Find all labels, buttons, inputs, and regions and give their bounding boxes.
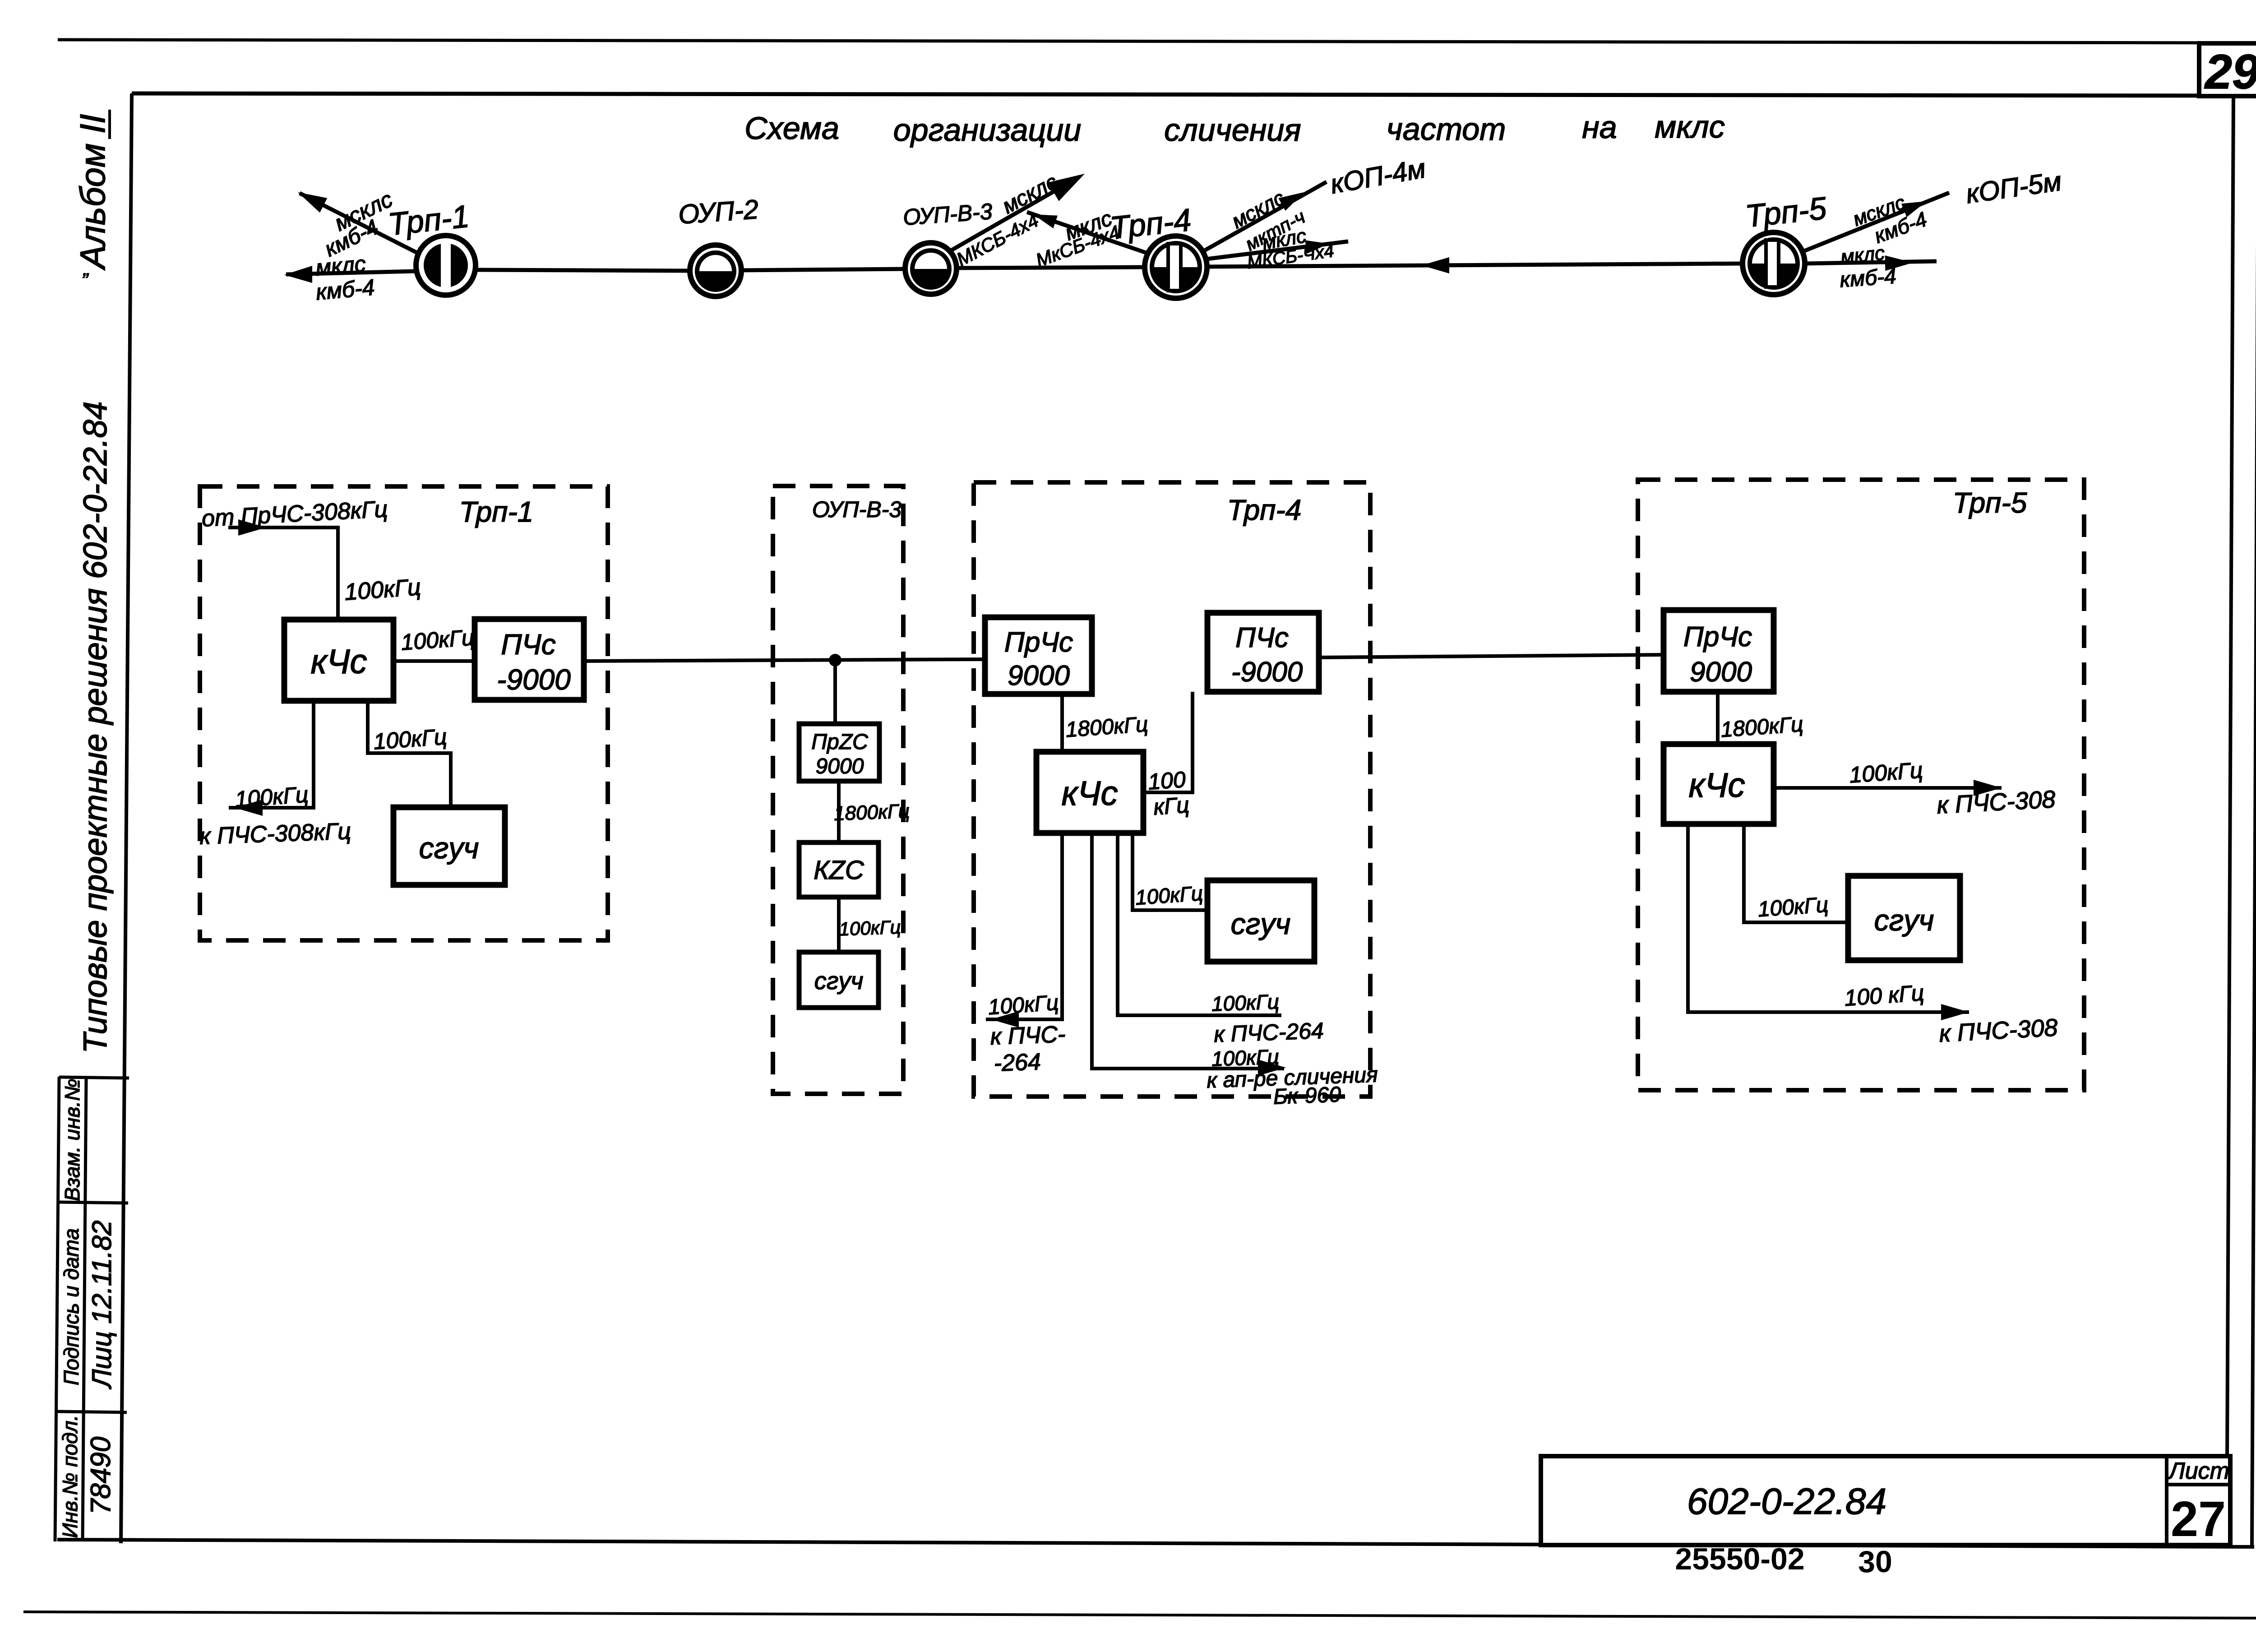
svg-text:к ПЧС-264: к ПЧС-264 <box>1213 1018 1324 1047</box>
svg-text:100кГц: 100кГц <box>400 625 475 655</box>
svg-text:к ПЧС-: к ПЧС- <box>990 1021 1066 1050</box>
title block divider <box>2165 1456 2168 1545</box>
svg-text:кЧс: кЧс <box>310 643 367 681</box>
branch line D Трп-4 shallow right <box>1207 241 1348 259</box>
station Трп-5 circle <box>1743 232 1805 295</box>
label ОУП-В-3 <box>902 199 994 230</box>
svg-text:ПЧс: ПЧс <box>1235 622 1289 653</box>
block ПЧС-9000 (Трп-4) <box>1207 613 1319 692</box>
label к ПЧС-308 (upper) <box>1936 786 2056 819</box>
station ОУП-2 circle <box>690 245 741 296</box>
frame bottom line <box>57 1540 2254 1547</box>
label 100кГц (w4) <box>1134 881 1203 909</box>
block КЧС (Трп-5) <box>1664 744 1774 824</box>
wire КЧС output w1 to ПЧС-264 <box>986 833 1062 1019</box>
label от ПрЧС-308кГц <box>201 496 388 532</box>
wire КЧС up to ПЧС-9000 (Трп-4) <box>1143 692 1193 792</box>
svg-text:100кГц: 100кГц <box>1134 881 1203 909</box>
svg-text:ОУП-2: ОУП-2 <box>677 194 759 230</box>
svg-text:100кГц: 100кГц <box>1849 757 1923 787</box>
stamp label: Подпись и дата <box>60 1228 83 1385</box>
svg-text:частот: частот <box>1387 111 1506 147</box>
svg-text:9000: 9000 <box>1690 657 1752 688</box>
label 1800кГц (Трп-5) <box>1720 713 1804 742</box>
label МКЛС (line B) <box>1062 206 1115 245</box>
svg-text:сгуч: сгуч <box>1874 903 1934 937</box>
svg-text:9000: 9000 <box>816 754 864 778</box>
label 100кГц (right out) <box>1849 757 1923 787</box>
block КЧС (Трп-4) <box>1036 752 1143 833</box>
station Трп-1 circle <box>416 236 476 295</box>
label Трп-4 (line) <box>1108 202 1193 245</box>
wire input to КЧС (Трп-1) <box>228 528 338 620</box>
wire junction to Пр2С <box>833 660 837 724</box>
svg-text:ОУП-В-3: ОУП-В-3 <box>812 497 901 522</box>
svg-text:100кГц: 100кГц <box>839 916 901 940</box>
svg-text:сличения: сличения <box>1164 112 1301 148</box>
label 100кГц (to СГУЧ) <box>373 724 448 754</box>
wire КЧС output w3 to ПЧС-264 <box>1118 833 1281 1015</box>
wire КЧС output w4 to СГУЧ (Трп-4) <box>1133 833 1207 910</box>
label Трп-1 (line) <box>386 199 471 242</box>
svg-text:сгуч: сгуч <box>1231 907 1291 940</box>
label МСКЛС / КМБ-4 (left diag) <box>330 186 396 236</box>
label МСКЛС (line E) <box>1850 191 1908 231</box>
title: Схема организации сличения частот на МКЛС <box>744 109 1725 148</box>
svg-text:на: на <box>1582 110 1617 145</box>
bottom-left stamp column: verticals <box>55 1077 59 1541</box>
block ПрЧС 9000 (Трп-5) <box>1664 610 1774 692</box>
label 100кГц (input) <box>344 574 422 606</box>
stamp signature: Лшц 12.11.82 <box>87 1220 117 1389</box>
block К2С <box>799 842 878 897</box>
label МКЛС (right horiz) <box>1840 242 1886 268</box>
stamp label: Взам. инв.№ <box>60 1078 84 1201</box>
svg-text:100кГц: 100кГц <box>987 991 1059 1020</box>
wire КЧС to СГУЧ (Трп-1) <box>368 701 451 807</box>
svg-text:602-0-22.84: 602-0-22.84 <box>1687 1481 1886 1522</box>
label 100кГц (down-left) <box>234 782 309 812</box>
block СГУЧ (Трп-5) <box>1848 876 1960 960</box>
block ПрЧС 9000 (Трп-4) <box>985 617 1092 694</box>
svg-text:25550-02: 25550-02 <box>1675 1542 1804 1576</box>
svg-text:Лист: Лист <box>2168 1458 2229 1484</box>
branch line C Трп-4 up-right <box>1204 182 1327 251</box>
Лист cell separator <box>2167 1483 2230 1486</box>
svg-text:-9000: -9000 <box>497 663 571 696</box>
label ОУП-2 <box>677 194 759 230</box>
label 100кГц (w2) <box>1211 1045 1280 1070</box>
block ПЧС-9000 (Трп-1) <box>475 619 584 700</box>
label Трп-5 (line) <box>1743 190 1828 234</box>
block СГУЧ (Трп-1) <box>393 807 505 885</box>
label к ПЧС-308кГц <box>199 818 351 850</box>
wire ПЧС-9000 to junction (long trunk) <box>584 659 985 661</box>
svg-text:сгуч: сгуч <box>814 967 864 995</box>
svg-text:Типовые проектные решения: Типовые проектные решения 602-0-22.84 <box>77 401 114 1053</box>
svg-text:9000: 9000 <box>1008 660 1070 691</box>
left margin label: Типовые проектные решения 602-0-22.84 <box>77 401 114 1053</box>
branch line E Трп-5 up-right <box>1804 193 1949 251</box>
svg-text:100кГц: 100кГц <box>373 724 448 754</box>
wire КЧС down-left output <box>229 701 314 808</box>
label МКЛС (line D) <box>1261 225 1308 254</box>
label МКСБ-4х4 (line D) <box>1246 241 1335 273</box>
label кОП-5м <box>1964 166 2063 209</box>
svg-text:„: „ <box>83 258 90 280</box>
title block rectangle <box>1541 1456 2230 1545</box>
label МКСБ-4х4 (line B) <box>1033 221 1123 271</box>
wire ОУП-В-3 to Трп-4 <box>956 267 1146 268</box>
dashed station box ОУП-В-3 <box>773 486 903 1094</box>
svg-text:29: 29 <box>2204 44 2256 99</box>
svg-text:100кГц: 100кГц <box>234 782 309 812</box>
wire ПЧС-9000 (Трп-4) to Трп-5 trunk <box>1319 655 1664 657</box>
svg-text:кГц: кГц <box>1152 792 1190 819</box>
underline below II of Альбом <box>108 110 111 139</box>
svg-text:КZС: КZС <box>814 856 864 885</box>
wire КЧС bottom-left output to ПЧС-308 <box>1688 824 1969 1012</box>
wire КЧС to ПЧС-9000 <box>393 659 475 663</box>
wire ПрЧС to КЧС (Трп-5) <box>1716 692 1720 744</box>
branch line from Трп-1 up-left with arrow <box>300 193 419 254</box>
svg-text:100кГц: 100кГц <box>344 574 422 606</box>
svg-text:ПЧс: ПЧс <box>501 628 555 661</box>
dashed station box Трп-1 <box>200 486 608 940</box>
label к ПЧС-264 (w3) <box>1213 1018 1324 1047</box>
svg-text:Трп-4: Трп-4 <box>1227 494 1302 526</box>
svg-text:27: 27 <box>2171 1491 2226 1547</box>
svg-text:100кГц: 100кГц <box>1211 990 1280 1015</box>
label 100кГц (ОУП-В-3) <box>839 916 901 940</box>
label 100кГц (to СГУЧ Трп-5) <box>1757 893 1829 922</box>
label к ПЧС-308 (lower) <box>1938 1014 2058 1047</box>
label к ап-ре сличения <box>1207 1063 1378 1092</box>
svg-text:78490: 78490 <box>85 1437 116 1514</box>
svg-text:мклс: мклс <box>1655 109 1725 144</box>
svg-text:кЧс: кЧс <box>1688 766 1745 805</box>
svg-text:Схема: Схема <box>744 111 839 146</box>
wire КЧС right output to ПЧС-308 <box>1774 786 2002 790</box>
svg-text:-264: -264 <box>994 1049 1041 1077</box>
block Пр2С 9000 <box>799 724 879 781</box>
svg-text:Подпись и дата: Подпись и дата <box>60 1228 83 1385</box>
svg-text:сгуч: сгуч <box>419 831 479 865</box>
svg-text:ПрZС: ПрZС <box>811 730 868 754</box>
label КМБ-4 (right horiz) <box>1839 264 1897 292</box>
svg-text:ПрЧс: ПрЧс <box>1004 627 1073 658</box>
label кОП-4м <box>1328 153 1428 199</box>
svg-text:1800кГц: 1800кГц <box>833 800 910 825</box>
label 1800кГц (ОУП-В-3) <box>833 800 910 825</box>
station Трп-4 circle <box>1145 236 1207 298</box>
label МКТП-4 (line C) <box>1242 206 1308 255</box>
svg-text:-9000: -9000 <box>1231 657 1303 688</box>
svg-text:30: 30 <box>1858 1545 1892 1579</box>
stamp cell separators <box>59 1077 129 1078</box>
branch line A ОУП-В-3 up-right with big arrow <box>950 177 1079 251</box>
svg-text:Бк-960: Бк-960 <box>1273 1083 1341 1109</box>
svg-text:к ПЧС-308кГц: к ПЧС-308кГц <box>199 818 351 850</box>
label 100 кГц (Трп-4 riser) <box>1147 767 1186 795</box>
wire ОУП-2 to ОУП-В-3 <box>740 269 906 270</box>
frame right inner vertical <box>2227 96 2233 1458</box>
label 1800кГц (Трп-4) <box>1065 713 1149 742</box>
station ОУП-В-3 circle <box>905 243 957 294</box>
top outer sheet line <box>58 40 2256 43</box>
wire Трп-1 to ОУП-2 <box>476 270 691 271</box>
frame left vertical <box>121 93 132 1543</box>
block СГУЧ (Трп-4) <box>1207 880 1314 962</box>
svg-text:100кГц: 100кГц <box>1757 893 1829 922</box>
svg-text:Взам. инв.№: Взам. инв.№ <box>60 1078 84 1201</box>
label МСКЛС (line A) <box>999 170 1062 218</box>
label 100кГц (КЧС-ПЧС) <box>400 625 475 655</box>
sheet right outer vertical <box>2252 42 2256 1546</box>
svg-text:кмб-4: кмб-4 <box>1839 264 1897 292</box>
branch line B to Трп-4 with small arrow <box>1027 212 1146 253</box>
svg-text:Альбом II: Альбом II <box>73 114 112 271</box>
label к ПЧС- / -264 <box>990 1021 1066 1050</box>
wire ПрЧС to КЧС (Трп-4) <box>1060 694 1064 752</box>
sheet number box 29 <box>2199 43 2256 99</box>
wire КЧС output w2 to comparison apparatus <box>1092 833 1284 1069</box>
svg-text:Трп-1: Трп-1 <box>459 495 534 528</box>
svg-text:кЧс: кЧс <box>1061 774 1118 813</box>
label МСКЛС (line C) <box>1228 186 1289 233</box>
svg-text:100: 100 <box>1147 767 1186 795</box>
svg-text:организации: организации <box>893 112 1082 148</box>
dashed station box Трп-4 <box>974 482 1370 1097</box>
svg-text:мклс: мклс <box>1840 242 1886 268</box>
label Бк-960 <box>1273 1083 1341 1109</box>
stamp label: Инв.№ подл. <box>58 1415 82 1538</box>
main trunk line segment Трп-1 left arrow <box>286 271 416 274</box>
svg-text:ПрЧс: ПрЧс <box>1683 621 1752 652</box>
label МКЛС / КМБ-4 (left horiz) <box>314 251 367 280</box>
wire К2С to СГУЧ (ОУП-В-3) <box>837 897 841 952</box>
stamp number: 78490 <box>85 1437 116 1514</box>
svg-text:кмб-4: кмб-4 <box>315 274 376 305</box>
dashed station box Трп-5 <box>1638 480 2084 1090</box>
frame top line <box>132 93 2233 96</box>
label 100 кГц (bottom out) <box>1844 980 1925 1011</box>
sheet bottom outer line <box>23 1612 2256 1618</box>
junction node on trunk <box>829 654 841 666</box>
label МКСБ-4х4 (line A) <box>953 209 1042 270</box>
label 100кГц (w3) <box>1211 990 1280 1015</box>
svg-text:Лшц 12.11.82: Лшц 12.11.82 <box>87 1220 117 1389</box>
left margin label: Альбом II <box>73 114 112 271</box>
block СГУЧ (ОУП-В-3) <box>799 952 878 1008</box>
svg-text:Инв.№ подл.: Инв.№ подл. <box>58 1415 82 1538</box>
wire Трп-5 to right end arrow <box>1805 261 1937 264</box>
label КМБ-4 (line E) <box>1871 207 1930 248</box>
block КЧС (Трп-1) <box>284 620 393 701</box>
svg-text:Трп-5: Трп-5 <box>1953 486 2027 519</box>
wire Трп-4 to Трп-5 with mid arrow <box>1207 264 1743 267</box>
wire КЧС to СГУЧ (Трп-5) <box>1744 824 1848 922</box>
label 100кГц (w1) <box>987 991 1059 1020</box>
wire Пр2С to К2С <box>837 781 841 842</box>
